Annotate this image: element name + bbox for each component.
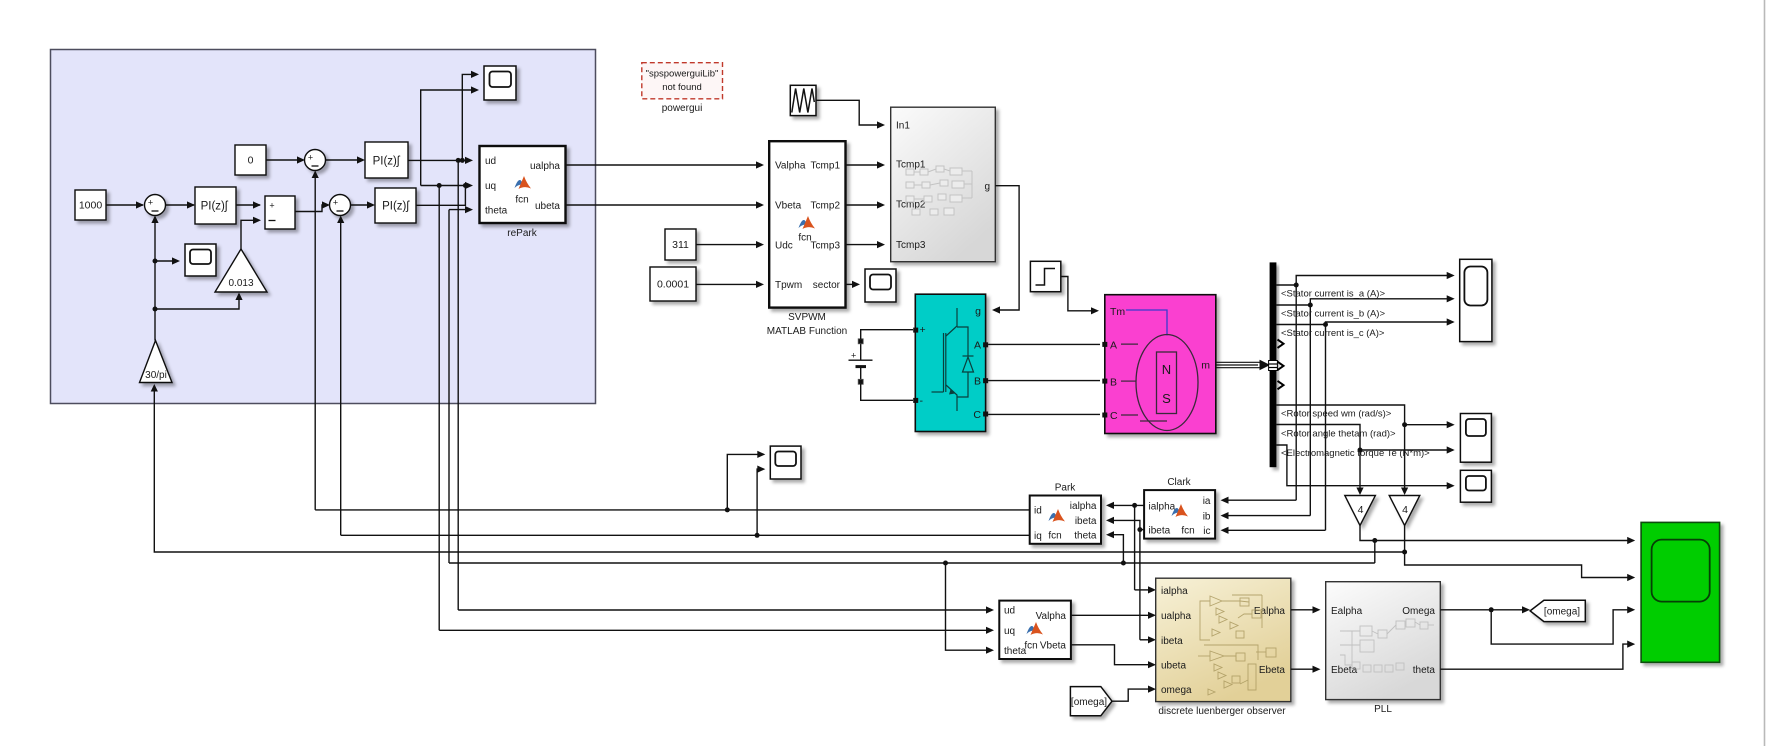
svg-text:ud: ud — [485, 156, 496, 167]
wire step to motor Tm — [1061, 277, 1099, 315]
svg-text:sector: sector — [813, 280, 841, 291]
svg-text:+: + — [851, 351, 856, 361]
svg-text:311: 311 — [672, 239, 689, 251]
svg-text:Vbeta: Vbeta — [775, 201, 802, 212]
wires SVPWM Tcmp1-3 to subsystem — [846, 161, 886, 248]
wire — [266, 156, 305, 163]
Valpha Vbeta MATLAB function block — [999, 601, 1071, 659]
svg-text:fcn: fcn — [798, 233, 811, 244]
wire PLL Omega to Goto tag and scope input3 — [1440, 606, 1635, 644]
svg-text:fcn: fcn — [515, 195, 528, 206]
svg-text:uq: uq — [1004, 626, 1015, 637]
svg-text:omega: omega — [1161, 685, 1192, 696]
wire is_a down to Clark ia — [1221, 497, 1297, 504]
svg-text:0.013: 0.013 — [228, 278, 253, 289]
svg-text:theta: theta — [1074, 531, 1097, 542]
scope torque — [1460, 470, 1491, 502]
gain 4 (speed) — [1389, 496, 1420, 526]
wire theta riser to Park theta — [1106, 531, 1123, 563]
wire theta drop to Valpha block theta — [946, 563, 995, 654]
svg-text:In1: In1 — [896, 121, 910, 132]
PLL block — [1326, 582, 1441, 700]
wire observer Ebeta to PLL — [1291, 666, 1321, 673]
wire 30/pi to S1 — [151, 216, 158, 341]
repeating sequence (triangle wave) source — [790, 85, 816, 115]
sum S2 — [330, 195, 351, 216]
svg-text:Tcmp3: Tcmp3 — [896, 240, 926, 251]
wire rePark ubeta to SVPWM Vbeta — [566, 201, 765, 208]
wire uq vertical drop to Valpha block — [438, 186, 440, 631]
Clark MATLAB function block — [1144, 490, 1215, 538]
svg-text:powergui: powergui — [662, 103, 703, 114]
bus signal is_c wire — [1276, 318, 1454, 530]
svg-text:Clark: Clark — [1167, 477, 1191, 488]
rePark MATLAB function block — [480, 146, 566, 223]
svg-text:1000: 1000 — [79, 200, 103, 212]
wire Clark ialpha to Park ialpha (branch to observer) — [1106, 502, 1156, 594]
wire 0.0001 to Tpwm — [696, 281, 764, 288]
gain 4 (theta) — [1345, 496, 1376, 526]
scope (speed) — [185, 244, 216, 276]
wire PI3 to rePark uq (riser, with branch nodes) — [416, 182, 473, 205]
add-subtract block — [265, 196, 295, 229]
bus signal rotor angle thetam wire — [1276, 425, 1454, 496]
svg-text:Ealpha: Ealpha — [1254, 606, 1286, 617]
svg-text:0.0001: 0.0001 — [657, 279, 689, 291]
step block — [1030, 261, 1060, 291]
constant 0.0001 — [650, 267, 696, 301]
wire is_b down to Clark ib — [1221, 512, 1311, 519]
svg-text:Tcmp3: Tcmp3 — [811, 241, 841, 252]
gate pulse subsystem — [891, 107, 996, 262]
svg-text:"spspowerguiLib": "spspowerguiLib" — [646, 69, 719, 80]
bus signal torque Te wire — [1276, 445, 1454, 489]
svg-text:Udc: Udc — [775, 241, 793, 252]
wire S3 bottom feedback (id) — [312, 171, 319, 510]
svg-text:g: g — [984, 182, 990, 193]
svg-text:<Electromagnetic torque Te (N*: <Electromagnetic torque Te (N*m)> — [1281, 448, 1430, 459]
discrete luenberger observer block — [1156, 578, 1291, 701]
scope (ud uq) top — [484, 66, 516, 100]
svg-text:ubeta: ubeta — [1161, 661, 1186, 672]
constant 1000 — [75, 190, 106, 220]
svg-text:Valpha: Valpha — [775, 161, 806, 172]
svg-text:theta: theta — [485, 206, 508, 217]
svg-text:ialpha: ialpha — [1070, 501, 1097, 512]
svg-text:30/pi: 30/pi — [145, 370, 167, 381]
wire S2 bottom feedback (iq) — [337, 216, 344, 536]
wires inverter ABC to motor ABC — [988, 344, 1100, 414]
wire — [351, 201, 376, 208]
svg-text:A: A — [1110, 339, 1117, 351]
svg-text:ibeta: ibeta — [1075, 516, 1097, 527]
PMSM motor block — [1102, 295, 1216, 434]
wire PLL theta to scope input4 — [1440, 641, 1635, 670]
scope (id iq) — [770, 446, 801, 479]
svg-text:0: 0 — [248, 155, 254, 167]
svg-text:Valpha: Valpha — [1036, 611, 1067, 622]
svg-text:[omega]: [omega] — [1544, 607, 1580, 618]
wire gain speed output: feedback left and scope input2 — [151, 384, 1636, 581]
constant 311 — [665, 229, 696, 260]
wire uq branch up to scope input 2 — [421, 86, 479, 185]
svg-text:+: + — [920, 324, 926, 336]
svg-text:-: - — [920, 395, 924, 407]
wire Park iq feedback (long left) — [341, 533, 1030, 538]
SVPWM MATLAB Function block — [769, 141, 845, 307]
scope (sector) — [865, 269, 896, 302]
gain 0.013 — [215, 249, 267, 292]
svg-text:ic: ic — [1203, 526, 1210, 537]
canvas right edge line — [1764, 0, 1766, 746]
gain 30/pi — [140, 341, 173, 383]
wire observer Ealpha to PLL — [1291, 606, 1321, 613]
constant 0 — [235, 145, 266, 175]
svg-text:PI(z)ʃ: PI(z)ʃ — [201, 201, 229, 213]
From tag omega — [1070, 687, 1112, 716]
svg-text:discrete luenberger observer: discrete luenberger observer — [1158, 706, 1286, 717]
sum S3 — [305, 150, 326, 171]
wire PI2 to rePark ud (with branch nodes) — [408, 157, 473, 164]
wire battery + to inverter + — [861, 330, 913, 339]
svg-text:C: C — [973, 409, 981, 421]
svg-text:rePark: rePark — [507, 228, 537, 239]
PI controller 3 — [375, 188, 416, 223]
powergui block (library not found) — [642, 63, 723, 99]
node on speed line to scope — [153, 257, 181, 264]
svg-text:B: B — [974, 376, 981, 388]
scope stator currents — [1460, 259, 1492, 341]
measurement bus wire (triple line) from motor m — [1216, 361, 1269, 370]
svg-text:ubeta: ubeta — [535, 201, 560, 212]
svg-text:ialpha: ialpha — [1161, 586, 1188, 597]
wire sector to scope — [846, 281, 861, 288]
sum S1 — [145, 195, 166, 216]
wire Clark ibeta to Park ibeta (branch to observer) — [1106, 517, 1156, 644]
wire From omega to observer omega — [1112, 686, 1156, 702]
scope wm thetam — [1460, 414, 1491, 463]
svg-text:+: + — [333, 198, 338, 208]
wire triangle wave to In1 — [816, 100, 885, 128]
svg-text:ibeta: ibeta — [1161, 636, 1183, 647]
wire — [295, 201, 330, 211]
wire rePark ualpha to SVPWM Valpha — [566, 161, 765, 168]
wire 311 to Udc — [696, 241, 764, 248]
svg-text:+: + — [308, 153, 313, 163]
svg-text:PI(z)ʃ: PI(z)ʃ — [373, 156, 401, 168]
svg-text:B: B — [1110, 376, 1117, 388]
wire theta vertical riser — [448, 210, 450, 563]
svg-text:ualpha: ualpha — [1161, 611, 1191, 622]
svg-text:<Rotor angle thetam (rad)>: <Rotor angle thetam (rad)> — [1281, 429, 1396, 440]
svg-text:Ebeta: Ebeta — [1259, 665, 1286, 676]
svg-text:SVPWM: SVPWM — [788, 312, 826, 323]
wire — [106, 201, 144, 208]
PI controller 2 — [365, 142, 408, 178]
universal bridge (inverter) — [913, 294, 988, 431]
svg-text:Omega: Omega — [1402, 606, 1435, 617]
DC voltage source (battery) — [849, 339, 873, 385]
wire iq branch to scope input2 — [757, 466, 765, 536]
wire Park id feedback (long left) — [315, 507, 1029, 512]
svg-text:[omega]: [omega] — [1071, 697, 1107, 708]
wire — [236, 201, 261, 208]
svg-text:4: 4 — [1358, 504, 1364, 516]
svg-text:id: id — [1034, 506, 1042, 517]
Goto tag omega — [1530, 600, 1585, 621]
svg-text:Ebeta: Ebeta — [1331, 665, 1358, 676]
svg-text:ialpha: ialpha — [1149, 502, 1176, 513]
wire — [166, 201, 196, 208]
svg-text:theta: theta — [1004, 646, 1027, 657]
wire Valpha to observer ualpha — [1071, 612, 1156, 619]
svg-text:Park: Park — [1055, 483, 1077, 494]
node on speed line to gain 0.013 — [153, 293, 243, 312]
bus signal rotor speed wm wire — [1276, 405, 1454, 495]
svg-text:ib: ib — [1203, 512, 1211, 523]
svg-text:C: C — [1110, 410, 1118, 422]
svg-text:ia: ia — [1203, 496, 1211, 507]
svg-text:<Stator current is_b (A)>: <Stator current is_b (A)> — [1281, 309, 1385, 320]
svg-text:+: + — [269, 201, 274, 211]
svg-text:N: N — [1162, 362, 1171, 377]
svg-text:<Stator current is_c (A)>: <Stator current is_c (A)> — [1281, 328, 1385, 339]
svg-text:ibeta: ibeta — [1149, 526, 1171, 537]
svg-text:g: g — [975, 306, 981, 318]
wire ud vertical drop to Valpha block — [457, 160, 459, 610]
svg-text:fcn: fcn — [1048, 531, 1061, 542]
wire gain 0.013 to add-subtract minus — [241, 217, 261, 249]
wire battery - to inverter - — [861, 384, 913, 400]
svg-text:<Rotor speed wm (rad/s)>: <Rotor speed wm (rad/s)> — [1281, 409, 1392, 420]
svg-text:fcn: fcn — [1181, 526, 1194, 537]
svg-text:+: + — [148, 198, 153, 208]
svg-text:iq: iq — [1034, 531, 1042, 542]
svg-text:Tm: Tm — [1110, 306, 1125, 318]
svg-text:m: m — [1201, 360, 1210, 372]
wire — [326, 156, 366, 163]
wire is_c down to Clark ic — [1221, 527, 1326, 534]
wire theta horizontal net — [449, 561, 1375, 566]
bus signal is_b wire — [1276, 295, 1454, 515]
area annotation (lavender region) — [51, 50, 596, 404]
svg-text:theta: theta — [1413, 665, 1436, 676]
wire id branch to scope input1 — [727, 451, 765, 510]
svg-text:ud: ud — [1004, 606, 1015, 617]
green scope block — [1641, 522, 1720, 662]
svg-text:Tcmp1: Tcmp1 — [811, 161, 841, 172]
wire ud branch up to scope input 1 — [462, 71, 479, 161]
svg-text:ualpha: ualpha — [530, 161, 560, 172]
wire gain theta output to theta net and scope input1 — [1360, 526, 1635, 564]
svg-text:Tcmp2: Tcmp2 — [811, 201, 841, 212]
wire Vbeta to observer ubeta — [1071, 645, 1156, 669]
svg-text:A: A — [974, 340, 981, 352]
svg-text:uq: uq — [485, 181, 496, 192]
Park MATLAB function block — [1030, 496, 1101, 544]
svg-text:MATLAB Function: MATLAB Function — [767, 326, 847, 337]
svg-text:fcn: fcn — [1024, 641, 1037, 652]
svg-text:S: S — [1162, 391, 1171, 406]
svg-text:PLL: PLL — [1374, 704, 1392, 715]
wire subsystem g to inverter g port — [992, 186, 1019, 314]
wire ud into Valpha block — [458, 606, 994, 613]
svg-text:PI(z)ʃ: PI(z)ʃ — [382, 201, 410, 213]
svg-text:<Stator current is_a (A)>: <Stator current is_a (A)> — [1281, 289, 1385, 300]
bus selector — [1269, 262, 1284, 467]
bus signal is_a wire — [1276, 272, 1454, 500]
svg-text:Tpwm: Tpwm — [775, 280, 802, 291]
wire theta into rePark — [449, 206, 473, 213]
PI controller 1 — [195, 187, 236, 224]
wire uq into Valpha block — [439, 627, 994, 634]
svg-text:4: 4 — [1402, 504, 1408, 516]
svg-text:not found: not found — [662, 82, 702, 93]
svg-text:Vbeta: Vbeta — [1040, 641, 1067, 652]
svg-text:Ealpha: Ealpha — [1331, 606, 1363, 617]
